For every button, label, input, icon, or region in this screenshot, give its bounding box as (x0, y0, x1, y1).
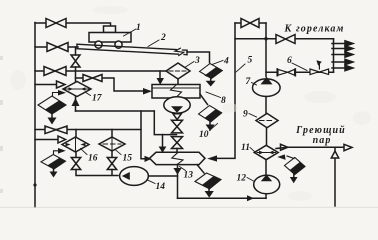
wire bottom suction line (178, 197, 267, 199)
check arrow open on line H (58, 136, 66, 143)
wire pump 12 to bottom line (265, 194, 267, 199)
heater 13 shell (150, 152, 206, 164)
drain diamond near 17 (38, 90, 66, 125)
valve on line G (45, 126, 67, 134)
label leader 7 (252, 83, 257, 86)
vertical valve on V2 (71, 55, 80, 67)
svg-text:16: 16 (88, 154, 98, 164)
svg-text:К горелкам: К горелкам (284, 24, 345, 35)
label leader 11 (250, 148, 255, 152)
drain diamond below 8 (199, 106, 222, 132)
wire drop to valve column (154, 111, 176, 135)
label leader 8 (206, 92, 221, 98)
pump 12 (254, 175, 280, 194)
wire V2 (75, 47, 77, 111)
label leader 4 (212, 61, 223, 65)
wire heater 13 outlet down (177, 165, 179, 199)
svg-text:13: 13 (184, 171, 194, 181)
label leader 2 (148, 40, 159, 47)
label leader 5 (236, 64, 245, 72)
wire heater 13 drain to diamond (197, 165, 204, 173)
label leader 16 (81, 149, 88, 155)
steam check arrow after 11 (281, 144, 288, 150)
wire line E (35, 84, 56, 86)
flow arrow down x160 (157, 78, 165, 85)
label leader 12 (247, 178, 254, 182)
flow arrow up into filter 17 (72, 98, 80, 106)
wire line H (35, 139, 58, 141)
valve on burner branch (276, 35, 295, 44)
wire drop into heater 13 top (162, 135, 164, 147)
edge scan shading (0, 56, 3, 193)
label leader 1 (124, 29, 137, 36)
vertical valve under 16 (71, 152, 80, 170)
flow arrow into heater 13 left (145, 156, 152, 162)
svg-text:12: 12 (237, 174, 247, 184)
wire line C (35, 70, 166, 72)
wire branch to burners lower (266, 71, 334, 73)
filter 16 (62, 130, 89, 153)
wire line F (76, 110, 155, 112)
scan smudges (10, 6, 371, 201)
svg-text:4: 4 (223, 57, 229, 67)
valve on line A (46, 19, 66, 28)
svg-text:9: 9 (243, 110, 248, 120)
label leader 14 (148, 180, 156, 184)
label leader 3 (186, 62, 195, 68)
wire filter 3 to heater 8 (177, 79, 179, 85)
svg-text:11: 11 (241, 143, 250, 153)
valve on lower branch (277, 69, 295, 76)
recirculation line 5 (217, 23, 235, 158)
valve on line B (47, 43, 68, 52)
drain diamond bottom-left (41, 148, 66, 178)
control valve 6 (310, 60, 329, 74)
wire steam drop line (334, 147, 336, 206)
label leader 15 (115, 150, 121, 155)
pump 14 (120, 167, 149, 186)
wire V5 riser (265, 23, 267, 77)
wire into heater 13 top (176, 149, 178, 153)
valve on bridge (241, 19, 259, 28)
valve on line D (83, 75, 102, 82)
wire line A to tank (35, 23, 111, 28)
junction on burner branch (264, 37, 267, 40)
wire heater 8 to drain diamond 5 (200, 94, 208, 105)
svg-text:пар: пар (313, 135, 332, 146)
valve on line C (44, 67, 66, 76)
label leader 6 (292, 63, 307, 71)
flow arrow into heater 13 right (207, 155, 217, 161)
burner arrow 5 (332, 65, 353, 70)
filter 9 (256, 113, 278, 127)
wire left header (34, 23, 36, 209)
steam header end arrow open (344, 144, 352, 150)
flow arrow down below heater 13 (173, 168, 181, 175)
check arrow open on line E (57, 81, 66, 88)
burner arrow 3 (332, 52, 353, 57)
burner arrow 4 (332, 59, 353, 64)
svg-text:17: 17 (92, 94, 103, 104)
burner arrow 2 (332, 46, 353, 51)
wire pump 7 to filter 9 (265, 97, 267, 114)
label leader 10 (210, 124, 218, 131)
svg-text:5: 5 (248, 56, 253, 66)
wire line D with valve (76, 78, 144, 91)
wire steam header (276, 147, 344, 148)
wire pump 14 discharge (148, 175, 177, 177)
wire filter 9 to valve 11 (266, 128, 268, 146)
svg-text:1: 1 (136, 23, 141, 33)
wire branch to burners upper (235, 38, 334, 40)
burner arrow 1 (332, 41, 353, 46)
pump 7 (252, 77, 280, 97)
wire suction to pump 14 (76, 170, 118, 176)
filter 17 (63, 82, 91, 97)
drain diamond on steam line (277, 154, 305, 183)
svg-text:14: 14 (156, 182, 166, 192)
filter 3 (166, 63, 190, 79)
wire line G (35, 129, 141, 131)
label leader 9 (249, 114, 257, 118)
label leader 13 (180, 167, 186, 171)
flow arrow on bottom line (247, 195, 254, 201)
wire drain stub x160 (159, 71, 161, 78)
filter 15 (99, 130, 125, 152)
tank car 1 (89, 26, 131, 48)
svg-text:3: 3 (194, 56, 200, 66)
wire trough to item 4 (187, 52, 210, 63)
drain diamond near 13 (195, 173, 221, 198)
label leader 17 (85, 92, 91, 96)
check arrow open below circle 10 (173, 114, 181, 120)
svg-text:15: 15 (123, 154, 133, 164)
burner manifold riser (333, 39, 335, 72)
flow arrow down into heater 13 top (159, 147, 167, 153)
vertical valve under 15 (107, 151, 116, 170)
steam riser arrow open (331, 151, 338, 158)
trough 2 (77, 44, 187, 55)
junction dot on header (33, 183, 36, 186)
svg-text:2: 2 (160, 33, 166, 43)
heater 8 (152, 85, 200, 99)
svg-text:6: 6 (287, 56, 292, 66)
drain diamond 4 (200, 64, 223, 87)
flow arrow into heater 8 (143, 88, 152, 95)
vertical valve pair on x177 (172, 120, 183, 133)
wire drop to heater 13 left (141, 111, 145, 159)
regulator 11 (254, 145, 278, 159)
heater circle 10 (164, 97, 190, 113)
wire line B (35, 46, 78, 48)
bypass bridge top (235, 22, 266, 24)
wire valve 11 to pump 12 (265, 160, 267, 177)
svg-text:10: 10 (199, 130, 209, 140)
